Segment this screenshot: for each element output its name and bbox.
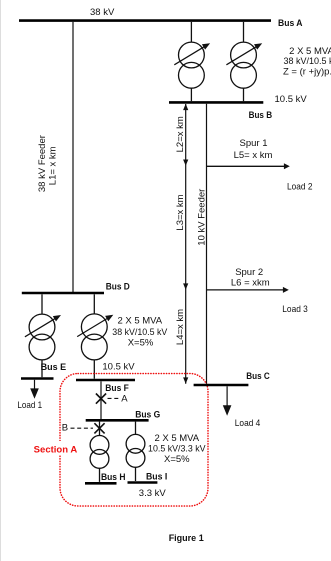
bus 38 kV top	[19, 19, 271, 22]
label transformer A-B ratings	[283, 46, 331, 78]
bus H	[85, 482, 117, 485]
bus D	[22, 292, 104, 295]
dashed link to A	[108, 397, 121, 399]
load 1 arrow	[34, 380, 36, 389]
arrowhead Spur 1	[284, 163, 290, 169]
svg-text:L6 = xkm: L6 = xkm	[231, 278, 270, 289]
svg-text:B: B	[62, 423, 68, 434]
svg-text:Section A: Section A	[34, 444, 78, 455]
arrowhead down at Spur 1	[183, 160, 188, 166]
svg-text:3.3 kV: 3.3 kV	[139, 488, 167, 499]
switch X (B)	[94, 423, 104, 433]
dimension line L2/L3/L4	[185, 104, 187, 384]
svg-text:L4=x km: L4=x km	[175, 309, 186, 345]
bus E	[21, 377, 54, 380]
transformer T4 (Bus D right)	[77, 294, 113, 378]
svg-text:Load 3: Load 3	[282, 304, 308, 315]
label transformer Section A ratings	[148, 433, 206, 465]
svg-text:Load 4: Load 4	[235, 418, 260, 429]
svg-text:2 X 5 MVA: 2 X 5 MVA	[117, 315, 162, 326]
svg-text:2 X 5 MVA: 2 X 5 MVA	[154, 433, 199, 444]
transformer T3 (Bus D left)	[25, 294, 61, 377]
arrowhead down at Spur 2	[183, 283, 188, 289]
svg-text:Spur 1: Spur 1	[240, 138, 268, 149]
svg-text:Bus B: Bus B	[249, 110, 273, 121]
svg-text:Bus A: Bus A	[278, 18, 303, 29]
arrowhead Spur 2	[283, 287, 289, 293]
svg-text:Z = (r +jy)p.u.: Z = (r +jy)p.u.	[283, 67, 331, 78]
transformer T5 (Section A left)	[90, 422, 109, 482]
svg-text:Figure 1: Figure 1	[169, 533, 204, 543]
label transformer D ratings	[112, 315, 168, 348]
bus I	[128, 481, 158, 484]
transformer T1 (38/10.5 kV left)	[174, 22, 210, 101]
svg-text:38 kV Feeder: 38 kV Feeder	[37, 135, 48, 192]
wire L1 feeder	[72, 22, 74, 292]
wire 10 kV feeder	[206, 104, 208, 385]
white mask under Section A text	[32, 441, 79, 455]
svg-text:Spur 2: Spur 2	[235, 267, 263, 278]
svg-text:A: A	[121, 393, 128, 404]
svg-text:Bus H: Bus H	[101, 472, 126, 483]
red dashed Section A boundary	[60, 374, 208, 507]
svg-text:X=5%: X=5%	[128, 338, 154, 349]
wire Spur 1	[207, 165, 286, 167]
transformer T2 (38/10.5 kV right)	[226, 22, 262, 101]
dashed link from B	[71, 427, 94, 429]
svg-text:L2=x km: L2=x km	[175, 116, 186, 152]
page edge line	[0, 0, 2, 561]
transformer T6 (Section A right)	[126, 422, 145, 481]
svg-text:38 kV/10.5 kV: 38 kV/10.5 kV	[284, 56, 331, 67]
svg-text:Bus E: Bus E	[41, 362, 67, 373]
svg-text:Load 2: Load 2	[287, 181, 313, 192]
svg-text:Load 1: Load 1	[17, 400, 42, 411]
bus F	[76, 379, 135, 382]
wire Spur 2	[207, 289, 285, 291]
svg-text:L3=x km: L3=x km	[175, 194, 186, 230]
svg-text:10.5 kV/3.3 kV: 10.5 kV/3.3 kV	[148, 444, 206, 455]
load 4 arrow	[226, 386, 228, 405]
bus C	[194, 384, 249, 387]
svg-text:2 X 5 MVA: 2 X 5 MVA	[289, 46, 331, 57]
svg-text:Bus C: Bus C	[246, 371, 270, 382]
bus B	[169, 101, 263, 104]
svg-text:10.5 kV: 10.5 kV	[102, 361, 135, 372]
wire Bus F to Bus G	[100, 381, 102, 419]
svg-text:Bus I: Bus I	[146, 472, 167, 483]
arrowhead up at Bus B	[183, 104, 188, 110]
svg-text:38 kV: 38 kV	[90, 7, 115, 18]
svg-text:L1= x km: L1= x km	[48, 146, 59, 185]
arrowhead down at Bus C	[183, 377, 188, 383]
svg-text:10.5 kV: 10.5 kV	[275, 94, 308, 105]
svg-text:L5= x km: L5= x km	[234, 150, 273, 161]
svg-text:Bus G: Bus G	[135, 409, 160, 420]
svg-text:10 kV Feeder: 10 kV Feeder	[196, 189, 207, 246]
svg-text:Bus D: Bus D	[106, 281, 130, 292]
svg-text:X=5%: X=5%	[164, 454, 190, 465]
svg-text:38 kV/10.5 kV: 38 kV/10.5 kV	[112, 327, 168, 338]
bus G	[86, 419, 149, 422]
switch X (A)	[96, 394, 106, 404]
